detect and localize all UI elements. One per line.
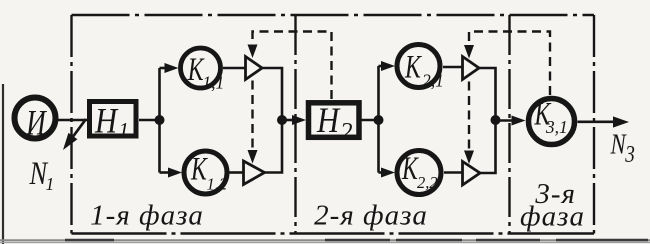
wire valve1 to bus xyxy=(262,68,282,120)
wire И to Н1 xyxy=(58,119,88,122)
output arrow N3 xyxy=(578,116,630,127)
scan artifact: left page edge line xyxy=(2,84,4,244)
scan artifact: bottom page line xyxy=(0,240,650,242)
svg-text:1: 1 xyxy=(119,118,130,142)
feedback arrowhead onto valve 1 xyxy=(248,45,258,59)
valve triangle 1 xyxy=(246,57,263,80)
valve triangle 4 xyxy=(463,162,481,186)
wire valve3 to bus xyxy=(479,68,496,120)
channel K1,2 xyxy=(184,151,227,194)
arrow bus to Н2 xyxy=(282,115,306,125)
svg-text:3: 3 xyxy=(624,141,635,168)
valve triangle 2 xyxy=(244,161,265,185)
rejected-flow arrow N1 xyxy=(63,119,86,150)
feedback arrowhead onto valve 3 xyxy=(464,45,474,59)
valve triangle 3 xyxy=(463,57,480,80)
junction dot A xyxy=(155,115,165,125)
channel K2,2 xyxy=(397,150,441,194)
buffer H2 xyxy=(309,101,360,146)
label N3 xyxy=(610,128,635,167)
svg-text:1-я фаза: 1-я фаза xyxy=(90,200,204,232)
svg-text:1,2: 1,2 xyxy=(207,175,228,194)
wire valve2 to bus xyxy=(265,120,283,173)
channel K2,1 xyxy=(397,45,444,91)
source circle И xyxy=(15,98,56,143)
riser wire phase 1 xyxy=(158,68,161,173)
wire Н2 to junction xyxy=(362,119,380,122)
junction dot C xyxy=(374,115,384,125)
riser wire phase 2 xyxy=(377,66,380,173)
wire K2,1 to valve 3 xyxy=(443,66,463,69)
frame (dash-dot boundary of system) xyxy=(72,15,595,234)
wire valve4 to bus xyxy=(480,120,496,173)
svg-text:И: И xyxy=(25,103,47,143)
feedback arrowhead onto valve 4 xyxy=(464,151,474,165)
svg-text:1,1: 1,1 xyxy=(202,73,224,93)
channel K3,1 xyxy=(529,96,575,145)
svg-text:Н: Н xyxy=(316,101,341,141)
wire K1,2 to valve 2 xyxy=(230,171,245,174)
svg-text:Н: Н xyxy=(94,101,119,141)
svg-text:2-я фаза: 2-я фаза xyxy=(314,200,428,232)
channel K1,1 xyxy=(181,48,225,93)
svg-text:1: 1 xyxy=(46,174,55,194)
wire to K2,1 with arrow xyxy=(379,61,396,71)
wire to K1,1 with arrow xyxy=(160,63,179,73)
arrow bus to K3,1 xyxy=(496,116,526,126)
feedback arrowhead onto valve 2 xyxy=(248,150,258,164)
dashed blocking feedback from Н2 to phase-1 valves xyxy=(253,32,332,151)
phase divider 1 xyxy=(294,15,296,234)
label N1 xyxy=(29,155,55,194)
wire K1,1 to valve 1 xyxy=(223,67,246,70)
buffer H1 xyxy=(90,101,137,142)
svg-text:фаза: фаза xyxy=(520,201,585,233)
svg-text:3,1: 3,1 xyxy=(545,117,568,137)
svg-text:2,2: 2,2 xyxy=(417,173,438,192)
label 3-я фаза xyxy=(520,178,585,233)
svg-text:2: 2 xyxy=(340,119,353,146)
svg-text:2,1: 2,1 xyxy=(422,71,444,91)
wire to K1,2 with arrow xyxy=(160,168,183,178)
phase divider 2 xyxy=(508,15,510,234)
junction dot B xyxy=(277,115,287,125)
dashed blocking feedback from K3,1 to phase-2 valves xyxy=(469,32,550,151)
junction dot D xyxy=(491,115,501,125)
wire to K2,2 with arrow xyxy=(379,168,396,178)
wire Н1 to junction xyxy=(139,119,160,122)
svg-text:К: К xyxy=(404,49,422,86)
wire K2,2 to valve 4 xyxy=(444,171,463,174)
